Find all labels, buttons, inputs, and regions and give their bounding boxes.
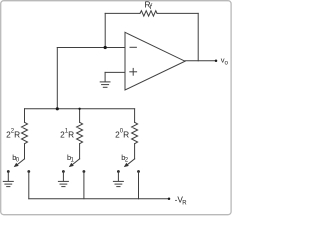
switch b2 arrowhead: [124, 163, 129, 167]
wire: b0 contact to -VR bus: [28, 172, 30, 199]
wire: summing bus: [25, 108, 135, 110]
op-amp non-inverting pin mark: [130, 68, 137, 75]
op-amp U1: [125, 32, 185, 90]
ground at non-inverting input: [100, 72, 110, 87]
wire: feedback drop to inverting input: [104, 13, 106, 47]
ground at b0 contact: [3, 172, 13, 187]
wire: branch 3 tail: [134, 144, 136, 159]
node: b0 reference contact: [27, 170, 30, 173]
wire: b1 contact to -VR bus: [83, 172, 85, 199]
wire: branch 1 tail: [24, 144, 26, 159]
switch b0 arrowhead: [14, 163, 19, 167]
resistor 2^0 R: [132, 122, 138, 143]
node: b2 reference contact: [137, 170, 140, 173]
node: inverting input junction: [104, 46, 107, 49]
node: -VR terminal: [168, 197, 171, 200]
wire: op-amp output: [185, 60, 216, 62]
wire: inverting input: [57, 47, 125, 49]
wire: branch 1 top: [24, 109, 26, 123]
resistor 2^2 R: [22, 122, 28, 143]
switch b1 arrowhead: [69, 163, 74, 167]
wire: left vertical to summing bus: [56, 48, 58, 109]
svg-text:20R: 20R: [115, 129, 129, 140]
wire: branch 3 top: [134, 109, 136, 123]
node: branch 2 bus junction: [78, 108, 80, 110]
wire: feedback top-left segment: [105, 12, 140, 14]
switch b2 wiper arm: [127, 159, 135, 165]
wire: branch 2 top: [79, 109, 81, 123]
resistor 2^1 R: [77, 122, 83, 143]
ground at b2 contact: [113, 172, 123, 187]
wire: feedback top-right segment: [157, 12, 198, 14]
wire: branch 2 tail: [79, 144, 81, 159]
node: summing bus junction: [56, 107, 59, 110]
wire: feedback vertical to output: [197, 13, 199, 60]
node: b1 reference contact: [83, 170, 86, 173]
node: output terminal: [215, 60, 218, 63]
node: b1 ground contact: [62, 170, 65, 173]
svg-text:21R: 21R: [60, 129, 74, 140]
switch b1 wiper arm: [72, 159, 80, 165]
switch b0 wiper arm: [17, 159, 25, 165]
svg-text:22R: 22R: [6, 129, 20, 140]
node: b2 ground contact: [117, 170, 120, 173]
wire: -VR bus: [29, 198, 169, 200]
op-amp inverting pin mark: [130, 46, 136, 48]
node: b0 ground contact: [7, 170, 10, 173]
wire: b2 contact to -VR bus: [138, 172, 140, 199]
ground at b1 contact: [58, 172, 68, 187]
wire: non-inverting input: [105, 71, 125, 73]
resistor Rf: [140, 11, 157, 16]
